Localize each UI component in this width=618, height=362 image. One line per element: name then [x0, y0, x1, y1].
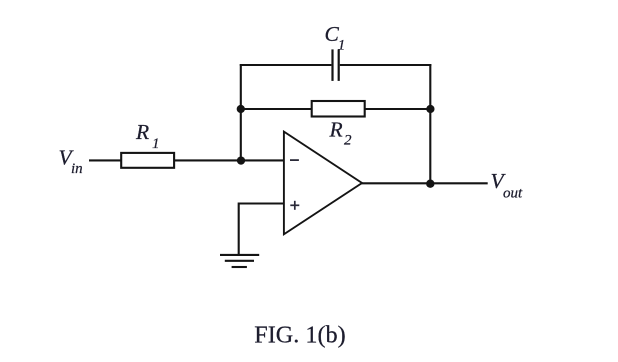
svg-text:R: R [135, 120, 149, 144]
node C (feedback right junction) [426, 105, 434, 113]
wire C1 right plate to top right corner [340, 64, 432, 66]
label Vout [491, 169, 524, 201]
node B (feedback left junction) [237, 105, 245, 113]
op-amp U1 [284, 132, 362, 235]
op-amp inverting input pin (-) [290, 159, 299, 161]
wire op-amp output [361, 182, 488, 184]
label Vin [59, 145, 83, 177]
resistor R1 [121, 153, 174, 168]
capacitor C1 [333, 49, 339, 81]
svg-text:in: in [71, 161, 83, 177]
wire Vin to inverting input (through R1) [89, 159, 284, 161]
ground [220, 255, 259, 267]
svg-text:R: R [329, 118, 343, 142]
svg-text:out: out [503, 185, 523, 201]
op-amp non-inverting input pin (+) [290, 201, 299, 210]
node A (inverting input junction) [237, 156, 245, 164]
label C1 [325, 22, 346, 53]
label R2 [329, 118, 353, 149]
wire node B to node C (through R2) [241, 108, 430, 110]
resistor R2 [312, 101, 365, 117]
wire right side vertical (feedback to output) [429, 64, 431, 184]
wire node A up to feedback (vertical riser) [240, 64, 242, 161]
svg-text:2: 2 [344, 133, 352, 149]
wire non-inverting input to ground [239, 204, 284, 255]
label R1 [135, 120, 160, 152]
node D (output junction) [426, 180, 434, 188]
svg-text:1: 1 [152, 136, 160, 152]
svg-text:1: 1 [338, 37, 346, 53]
wire top left corner to C1 left plate [240, 64, 332, 66]
svg-text:FIG. 1(b): FIG. 1(b) [254, 321, 345, 348]
